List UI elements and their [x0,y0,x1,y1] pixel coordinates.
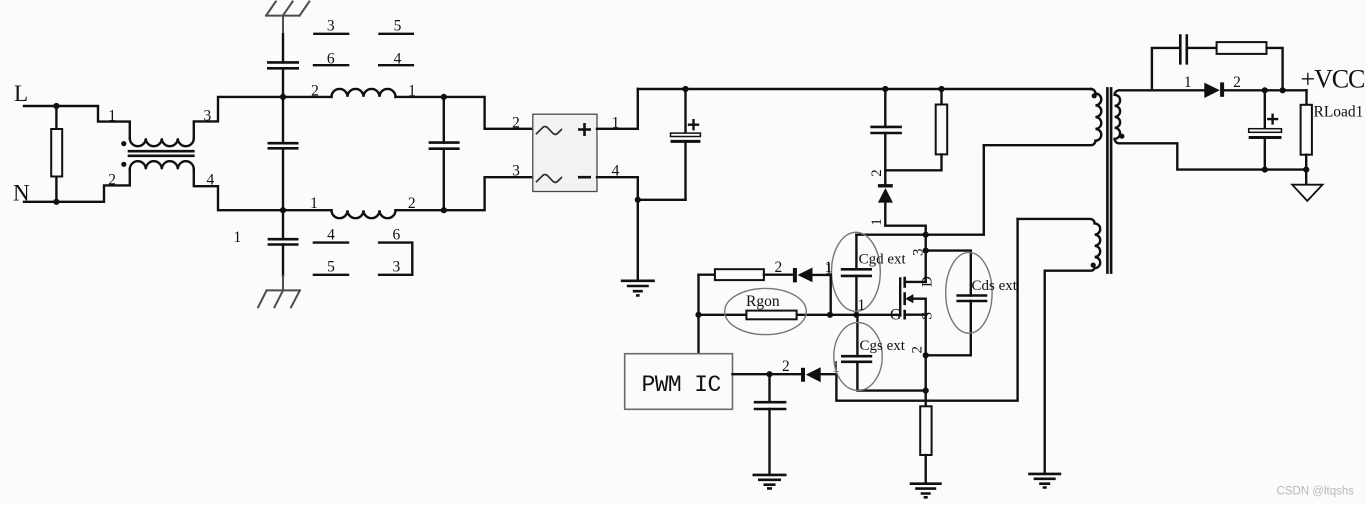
svg-text:L: L [14,81,28,106]
svg-text:1: 1 [832,359,840,376]
svg-text:S: S [920,312,936,320]
svg-text:3: 3 [393,258,401,275]
svg-text:5: 5 [394,17,402,34]
svg-text:4: 4 [327,226,335,243]
svg-text:Cgs ext: Cgs ext [860,338,906,354]
svg-text:2: 2 [775,259,783,276]
svg-text:5: 5 [327,258,335,275]
svg-text:2: 2 [108,172,116,189]
svg-text:1: 1 [858,297,866,314]
svg-text:1: 1 [108,108,116,125]
svg-text:3: 3 [512,163,520,180]
svg-text:3: 3 [327,17,335,34]
svg-text:Cds ext: Cds ext [972,278,1018,294]
svg-text:2: 2 [782,358,790,375]
svg-text:1: 1 [825,259,833,276]
svg-text:2: 2 [1233,74,1241,91]
svg-text:2: 2 [512,114,520,131]
svg-text:Cgd ext: Cgd ext [859,251,907,267]
svg-text:RLoad1: RLoad1 [1314,104,1364,121]
svg-text:1: 1 [310,195,318,212]
svg-text:+VCC: +VCC [1301,65,1365,94]
svg-text:2: 2 [408,195,416,212]
svg-text:2: 2 [311,83,319,100]
svg-text:Rgon: Rgon [746,293,780,310]
svg-text:1: 1 [1184,74,1192,91]
svg-text:CSDN @ltqshs: CSDN @ltqshs [1277,486,1355,498]
svg-text:1: 1 [408,83,416,100]
svg-text:N: N [13,181,30,206]
svg-text:3: 3 [911,249,927,257]
svg-text:1: 1 [234,229,242,246]
svg-text:2: 2 [869,169,885,177]
svg-text:D: D [920,276,936,287]
svg-text:PWM IC: PWM IC [642,372,721,398]
svg-text:2: 2 [910,346,926,354]
svg-text:1: 1 [869,218,885,226]
svg-text:6: 6 [393,226,401,243]
